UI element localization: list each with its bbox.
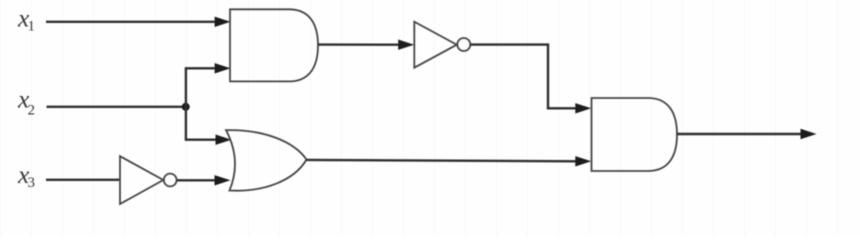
wire branch down to OR gate G3 input 1: [185, 138, 219, 140]
AND gate G1 body: [230, 9, 318, 81]
wire NOT gate G2 output to AND gate G5 input 1: [470, 45, 578, 109]
wire branch up to AND gate G1 input 2: [185, 67, 218, 69]
wire NOT gate G4 output to OR gate G3 input 2: [177, 179, 218, 181]
wire x3 to NOT gate G4 input: [46, 179, 120, 181]
wire vertical branch from node A: [185, 68, 187, 139]
wire OR gate G3 output to AND gate G5 input 2: [307, 160, 579, 161]
svg-text:2: 2: [28, 102, 36, 118]
wire AND gate G1 output to NOT gate G2 input: [318, 43, 402, 46]
arrowhead at AND gate G1 input 2: [215, 63, 231, 73]
arrowhead at AND gate G5 input 1: [575, 103, 591, 113]
arrowhead at OR gate G3 input 1: [216, 135, 232, 145]
input label x2: [17, 85, 35, 119]
arrowhead at AND gate G5 input 2: [575, 156, 591, 166]
wire x2 to junction node A: [47, 106, 186, 108]
NOT gate G2 (top inverter) triangle: [414, 22, 457, 68]
NOT gate G4 output bubble: [164, 174, 177, 187]
arrowhead at OR gate G3 input 2: [215, 175, 231, 185]
junction node A dot: [182, 103, 190, 111]
arrowhead at circuit output: [801, 129, 817, 139]
arrowhead at AND gate G1 input 1: [215, 17, 231, 27]
NOT gate G4 (inverter on x3) triangle: [120, 156, 163, 204]
wire AND gate G5 output: [677, 133, 804, 135]
OR gate G3 body: [226, 130, 307, 191]
AND gate G5 (output AND) body: [592, 98, 678, 171]
svg-text:3: 3: [28, 175, 36, 191]
svg-text:1: 1: [28, 19, 36, 35]
wire x1 to AND gate G1 input 1: [46, 21, 218, 23]
input label x3: [17, 160, 35, 191]
arrowhead at NOT gate G2 input: [398, 40, 414, 50]
input label x1: [17, 4, 35, 35]
NOT gate G2 output bubble: [457, 38, 470, 51]
